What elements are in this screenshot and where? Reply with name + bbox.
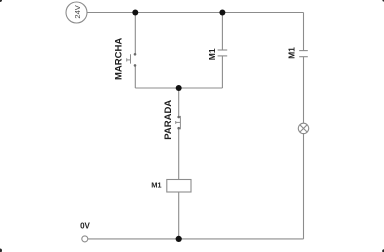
svg-text:M1: M1 [207, 48, 217, 60]
svg-text:M1: M1 [151, 181, 161, 190]
svg-text:0V: 0V [80, 222, 90, 231]
svg-text:MARCHA: MARCHA [114, 38, 125, 80]
svg-text:PARADA: PARADA [163, 100, 174, 140]
svg-text:M1: M1 [287, 47, 297, 59]
svg-text:24V: 24V [73, 5, 82, 18]
